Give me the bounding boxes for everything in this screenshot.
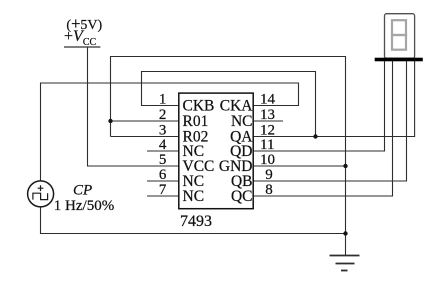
svg-text:1 Hz/50%: 1 Hz/50% xyxy=(54,198,114,214)
wire QB pin 9 to display xyxy=(253,61,407,181)
wire QA feedback loop to CKB pin 1 xyxy=(142,72,316,137)
svg-text:6: 6 xyxy=(159,167,167,183)
junction R0 at pin 2 xyxy=(108,119,112,123)
svg-text:8: 8 xyxy=(265,182,273,198)
display base bar xyxy=(375,58,423,62)
pulse source CP circle xyxy=(28,181,54,207)
svg-text:CKA: CKA xyxy=(220,98,254,115)
wire NC pin 7 stub xyxy=(147,195,179,197)
wire NC pin 6 stub xyxy=(147,180,179,182)
wire QC pin 8 to display xyxy=(253,61,393,196)
svg-text:QC: QC xyxy=(231,188,253,205)
svg-text:NC: NC xyxy=(183,188,205,205)
junction bottom wire to ground xyxy=(343,231,347,235)
svg-text:CP: CP xyxy=(73,182,92,198)
wire pin 3 R02 stub xyxy=(111,136,179,138)
pin numbers left xyxy=(159,92,167,199)
Vcc bar xyxy=(64,46,100,48)
wire pin 2 R01 stub xyxy=(111,120,179,122)
svg-text:NC: NC xyxy=(231,113,253,130)
svg-text:R01: R01 xyxy=(183,113,209,130)
wire NC pin 13 stub xyxy=(253,120,283,122)
wire CP bottom to ground node xyxy=(41,207,346,234)
display DS1 body xyxy=(385,14,415,59)
junction QA loop at pin 12 xyxy=(313,134,317,138)
wire R01/R02 to GND rail xyxy=(111,57,346,256)
wire VCC rail vertical to pin 5 xyxy=(88,47,179,166)
wire NC pin 4 stub xyxy=(147,150,179,152)
svg-text:14: 14 xyxy=(260,92,276,108)
svg-text:9: 9 xyxy=(265,167,273,183)
svg-text:CKB: CKB xyxy=(183,98,215,115)
wire GND pin 10 stub xyxy=(253,165,346,167)
junction R0 to GND line xyxy=(343,164,347,168)
svg-text:13: 13 xyxy=(260,107,275,123)
pin labels right column xyxy=(219,98,253,206)
display seven-segment 8 xyxy=(392,20,406,50)
svg-text:10: 10 xyxy=(260,152,275,168)
svg-text:11: 11 xyxy=(260,137,274,153)
IC U1 7493 body xyxy=(179,93,253,209)
svg-text:4: 4 xyxy=(159,137,167,153)
ground symbol xyxy=(330,256,360,271)
svg-text:2: 2 xyxy=(159,107,167,123)
pin numbers right xyxy=(260,92,276,199)
wire QA pin 12 to display xyxy=(253,61,415,137)
wire clock CP to CKA pin 14 xyxy=(41,83,299,181)
svg-text:7493: 7493 xyxy=(180,213,212,230)
svg-text:5: 5 xyxy=(159,152,167,168)
svg-text:7: 7 xyxy=(159,182,167,198)
svg-text:1: 1 xyxy=(159,92,167,108)
pin labels left column xyxy=(183,98,215,206)
wire QD pin 11 to display xyxy=(253,61,385,151)
pulse source square wave glyph xyxy=(33,193,48,199)
pulse source plus sign xyxy=(33,185,48,199)
